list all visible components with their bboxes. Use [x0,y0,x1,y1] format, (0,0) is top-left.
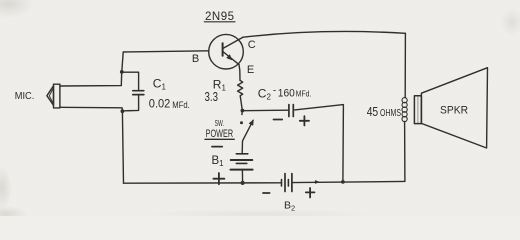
resistor R1 zigzag [238,80,243,97]
wire: right rail upper [404,33,406,97]
svg-text:160: 160 [278,87,295,99]
speaker SPKR voice coil loops [402,98,407,122]
speaker SPKR driver rectangle [414,96,421,124]
microphone MIC plug collar [54,84,60,108]
svg-text:E: E [247,64,254,76]
wire: C2 right lead and down branch [295,105,344,182]
battery B1 plate long bottom [231,169,253,171]
battery B1 plate short lower [236,162,247,164]
speaker SPKR cone [421,68,487,148]
battery B2 plate short right [287,180,289,187]
capacitor C2 right plate [292,105,294,117]
svg-text:C: C [248,39,256,51]
speaker SPKR driver inner line [417,97,419,123]
microphone MIC plug body bottom line [60,107,123,111]
node: junction C2 branch on bottom rail [341,180,345,184]
transistor Q1 emitter arrow [227,55,232,60]
svg-text:MFd.: MFd. [296,89,312,99]
wire: C2 left lead [242,109,287,112]
svg-text:0.02: 0.02 [149,99,171,111]
label POWER underline [205,138,234,140]
svg-text:MIC.: MIC. [15,90,35,102]
wire: top rail collector to right rail [243,31,406,37]
battery B1 plate short top [236,153,248,155]
label 2N95 underline [204,21,235,23]
microphone MIC plug tip [47,86,54,106]
svg-text:3.3: 3.3 [205,90,219,104]
svg-text:-: - [273,85,276,96]
capacitor C1 top plate [133,90,144,92]
svg-text:POWER: POWER [206,128,234,140]
polarity plus right of B2 [306,188,315,198]
switch SW1 upper stub [241,111,243,115]
wire: battery B1 to bottom rail [241,170,243,183]
wire: bottom rail left segment [124,182,282,184]
switch SW1 blade [243,120,254,140]
polarity minus left of B2 [263,192,270,194]
wire: switch to battery B1 [241,141,243,153]
battery B1 plate long upper [231,159,253,161]
polarity minus below C2 [274,119,283,121]
polarity plus below B1 [213,173,224,184]
transistor Q1 base bar [222,43,224,56]
wire: C1 top branch [122,72,139,90]
svg-text:MFd.: MFd. [172,100,190,110]
switch SW1 upper contact [240,121,243,124]
battery B2 plate short left [281,180,283,187]
svg-text:45: 45 [367,104,379,119]
wire: bottom rail right segment [293,181,405,182]
svg-text:B: B [192,53,199,65]
wire: arrow tick on bottom rail [315,180,319,183]
battery B2 plate long right [291,174,293,192]
node: junction B1 on bottom rail [241,181,245,185]
polarity minus below POWER [212,146,222,148]
node: junction B (mic bottom / C1 bottom) [121,109,125,113]
svg-text:SW.: SW. [215,119,224,128]
wire: base wire from left rail to transistor [122,51,209,72]
microphone MIC plug tip inner line [49,90,52,103]
node: junction R1/C2/switch [241,109,245,113]
wire: C1 bottom branch [122,95,138,111]
wire: resistor R1 to junction [240,97,242,110]
transistor Q1 2N95 circle [209,34,244,69]
node: junction A (mic top / C1 top) [120,70,124,74]
transistor Q1 collector stroke [223,38,243,49]
battery B2 plate long left [284,174,286,192]
wire: emitter to resistor R1 [239,65,240,81]
svg-text:SPKR: SPKR [440,105,468,117]
svg-text:2N95: 2N95 [205,11,235,23]
microphone MIC plug body top line [60,72,122,86]
switch SW1 blade arrowhead [249,120,253,125]
capacitor C1 bottom plate [133,94,144,96]
wire: right rail lower [404,122,406,182]
wire: left rail lower [122,111,123,183]
capacitor C2 left plate [288,105,290,117]
polarity plus below C2 [300,116,309,125]
transistor Q1 emitter stroke [223,52,239,65]
svg-text:OHMS: OHMS [380,107,401,119]
